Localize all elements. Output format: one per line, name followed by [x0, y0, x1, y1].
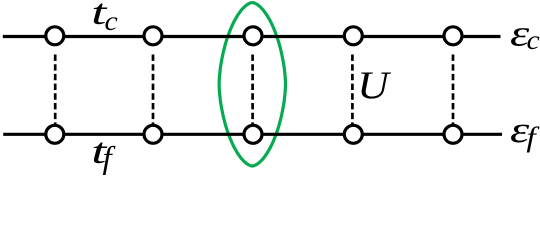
svg-text:f: f	[526, 121, 540, 153]
svg-text:c: c	[105, 7, 119, 36]
svg-text:f: f	[103, 140, 116, 175]
svg-text:U: U	[357, 63, 392, 106]
svg-text:c: c	[527, 26, 540, 55]
